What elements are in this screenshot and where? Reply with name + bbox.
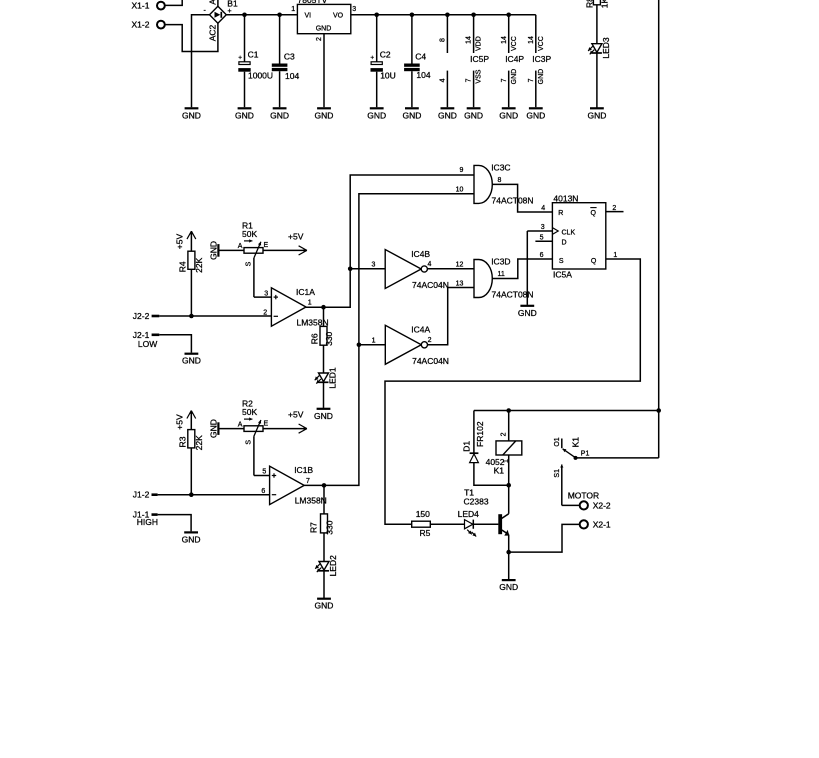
- svg-text:D1: D1: [462, 441, 472, 452]
- svg-text:GND: GND: [316, 25, 332, 32]
- svg-text:P1: P1: [581, 450, 590, 457]
- svg-text:LED3: LED3: [601, 37, 611, 59]
- svg-text:6: 6: [261, 488, 265, 495]
- svg-text:IC4P: IC4P: [505, 54, 524, 64]
- svg-text:330: 330: [324, 331, 334, 345]
- svg-text:LM358N: LM358N: [295, 496, 327, 506]
- svg-text:7805TV: 7805TV: [298, 0, 328, 5]
- svg-text:A: A: [238, 421, 243, 428]
- svg-text:IC3P: IC3P: [532, 54, 551, 64]
- svg-text:+5V: +5V: [288, 231, 304, 241]
- svg-text:GND: GND: [402, 110, 421, 120]
- svg-text:S: S: [246, 261, 253, 266]
- svg-text:LOW: LOW: [138, 339, 157, 349]
- svg-text:10: 10: [456, 186, 464, 193]
- svg-text:E: E: [264, 242, 269, 249]
- svg-text:LED2: LED2: [328, 555, 338, 577]
- svg-text:C2: C2: [380, 50, 391, 60]
- svg-text:VI: VI: [305, 13, 312, 20]
- svg-text:2: 2: [316, 37, 323, 41]
- svg-text:4: 4: [541, 205, 545, 212]
- svg-text:2: 2: [500, 432, 507, 436]
- svg-text:GND: GND: [526, 110, 545, 120]
- svg-text:LED1: LED1: [327, 367, 337, 389]
- svg-text:X2-1: X2-1: [593, 520, 611, 530]
- svg-text:7: 7: [528, 78, 535, 82]
- svg-text:4: 4: [440, 78, 447, 82]
- svg-text:8: 8: [440, 38, 447, 42]
- svg-text:D: D: [562, 240, 567, 247]
- svg-text:MOTOR: MOTOR: [568, 490, 599, 500]
- svg-text:R6: R6: [309, 333, 319, 344]
- svg-text:GND: GND: [587, 110, 606, 120]
- svg-text:VCC: VCC: [511, 36, 518, 51]
- svg-text:K1: K1: [571, 437, 581, 448]
- svg-text:GND: GND: [464, 110, 483, 120]
- svg-text:R5: R5: [420, 528, 431, 538]
- svg-text:GND: GND: [182, 110, 201, 120]
- svg-text:AC1: AC1: [208, 0, 218, 5]
- svg-text:C1: C1: [248, 50, 259, 60]
- svg-text:+: +: [370, 55, 374, 62]
- svg-text:1: 1: [613, 252, 617, 259]
- svg-text:6: 6: [540, 252, 544, 259]
- svg-text:+5V: +5V: [174, 414, 184, 430]
- svg-text:5: 5: [262, 469, 266, 476]
- svg-text:+: +: [228, 8, 232, 15]
- svg-text:J1-2: J1-2: [133, 490, 150, 500]
- svg-text:R4: R4: [177, 261, 187, 272]
- svg-text:J2-2: J2-2: [133, 311, 150, 321]
- svg-text:K1: K1: [494, 466, 505, 476]
- svg-text:GND: GND: [315, 110, 334, 120]
- svg-text:9: 9: [459, 167, 463, 174]
- svg-text:IC3D: IC3D: [491, 257, 510, 267]
- svg-text:GND: GND: [235, 110, 254, 120]
- svg-text:104: 104: [285, 71, 299, 81]
- svg-text:AC2: AC2: [208, 24, 218, 41]
- svg-text:VO: VO: [333, 13, 344, 20]
- svg-text:+5V: +5V: [174, 233, 184, 249]
- svg-text:10U: 10U: [380, 71, 396, 81]
- svg-text:GND: GND: [182, 356, 201, 366]
- svg-text:R8: R8: [585, 0, 595, 8]
- svg-text:X1-2: X1-2: [132, 20, 150, 30]
- svg-text:VDD: VDD: [476, 36, 483, 51]
- svg-text:4: 4: [428, 261, 432, 268]
- svg-text:1: 1: [372, 338, 376, 345]
- svg-text:IC4B: IC4B: [411, 249, 430, 259]
- svg-text:GND: GND: [518, 308, 537, 318]
- svg-text:IC1B: IC1B: [294, 465, 313, 475]
- svg-text:1: 1: [308, 299, 312, 306]
- svg-text:GND: GND: [182, 534, 201, 544]
- svg-text:50K: 50K: [242, 229, 257, 239]
- svg-text:4013N: 4013N: [553, 193, 578, 203]
- svg-text:12: 12: [456, 261, 464, 268]
- svg-text:7: 7: [501, 78, 508, 82]
- svg-text:R7: R7: [309, 522, 319, 533]
- svg-text:R3: R3: [177, 436, 187, 447]
- svg-text:GND: GND: [438, 110, 457, 120]
- svg-text:330: 330: [324, 520, 334, 534]
- svg-text:1K: 1K: [599, 0, 609, 8]
- svg-text:X2-2: X2-2: [593, 501, 611, 511]
- svg-text:IC5A: IC5A: [553, 270, 572, 280]
- svg-text:GND: GND: [367, 110, 386, 120]
- svg-text:1000U: 1000U: [248, 71, 273, 81]
- svg-text:104: 104: [416, 70, 430, 80]
- svg-text:A: A: [238, 243, 243, 250]
- svg-text:Q: Q: [591, 210, 597, 217]
- svg-text:S1: S1: [554, 469, 561, 478]
- svg-text:GND: GND: [208, 419, 218, 438]
- svg-text:IC5P: IC5P: [470, 54, 489, 64]
- svg-text:GND: GND: [208, 241, 218, 260]
- svg-text:GND: GND: [270, 110, 289, 120]
- svg-text:R: R: [558, 210, 563, 217]
- svg-text:S: S: [559, 258, 564, 265]
- svg-text:O1: O1: [554, 437, 561, 446]
- svg-text:22K: 22K: [194, 435, 204, 450]
- svg-text:13: 13: [456, 281, 464, 288]
- svg-text:7: 7: [466, 78, 473, 82]
- svg-text:C2383: C2383: [464, 497, 489, 507]
- svg-text:1: 1: [291, 6, 295, 13]
- svg-text:E: E: [264, 420, 269, 427]
- svg-text:150: 150: [416, 509, 430, 519]
- svg-text:GND: GND: [499, 110, 518, 120]
- svg-text:74ACT08N: 74ACT08N: [492, 195, 534, 205]
- svg-text:74AC04N: 74AC04N: [412, 356, 449, 366]
- svg-text:VCC: VCC: [538, 36, 545, 51]
- svg-text:74AC04N: 74AC04N: [412, 280, 449, 290]
- svg-text:IC1A: IC1A: [296, 287, 315, 297]
- svg-text:C3: C3: [284, 51, 295, 61]
- svg-text:FR102: FR102: [475, 421, 485, 447]
- svg-text:GND: GND: [511, 69, 518, 85]
- svg-text:CLK: CLK: [562, 230, 576, 237]
- svg-text:C4: C4: [415, 51, 426, 61]
- svg-text:50K: 50K: [242, 407, 257, 417]
- svg-text:3: 3: [352, 6, 356, 13]
- svg-text:7: 7: [306, 478, 310, 485]
- svg-text:8: 8: [498, 177, 502, 184]
- svg-text:3: 3: [541, 224, 545, 231]
- svg-text:IC4A: IC4A: [411, 325, 430, 335]
- svg-text:14: 14: [528, 36, 535, 44]
- svg-text:GND: GND: [499, 582, 518, 592]
- svg-text:LED4: LED4: [458, 509, 480, 519]
- svg-text:11: 11: [498, 271, 505, 278]
- svg-text:22K: 22K: [194, 257, 204, 272]
- svg-text:14: 14: [501, 36, 508, 44]
- svg-text:+: +: [238, 55, 242, 62]
- svg-text:S: S: [246, 440, 253, 445]
- svg-text:Q: Q: [591, 258, 597, 265]
- svg-text:GND: GND: [538, 69, 545, 85]
- svg-text:IC3C: IC3C: [491, 162, 510, 172]
- svg-text:X1-1: X1-1: [132, 1, 150, 11]
- svg-text:14: 14: [466, 36, 473, 44]
- svg-text:GND: GND: [314, 411, 333, 421]
- svg-text:3: 3: [264, 290, 268, 297]
- svg-text:3: 3: [372, 262, 376, 269]
- svg-text:+5V: +5V: [288, 410, 304, 420]
- svg-text:VSS: VSS: [476, 69, 483, 83]
- svg-text:2: 2: [428, 337, 432, 344]
- svg-text:HIGH: HIGH: [137, 517, 158, 527]
- svg-text:GND: GND: [315, 601, 334, 611]
